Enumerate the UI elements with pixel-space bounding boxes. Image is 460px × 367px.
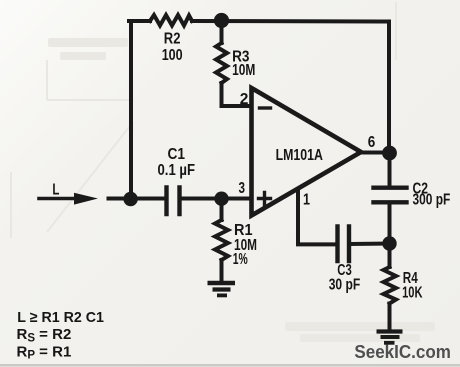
svg-text:R2: R2 xyxy=(164,31,181,48)
svg-text:1%: 1% xyxy=(233,251,248,268)
wire: C3 right plate to node C xyxy=(350,242,390,247)
wire: node to C1 left plate xyxy=(131,197,164,201)
node top (junction R2/R3/top wire) xyxy=(214,13,229,28)
svg-text:30 pF: 30 pF xyxy=(329,277,361,294)
ground (below R1) xyxy=(208,283,236,295)
wire: R4 bottom to ground xyxy=(388,304,392,331)
svg-text:10K: 10K xyxy=(402,284,423,301)
node C (junction C2/C3/R4) xyxy=(382,236,396,250)
wire: R1 bottom to ground xyxy=(220,260,224,281)
node input (junction left vertical / C1) xyxy=(123,192,137,206)
svg-text:SeekIC.com: SeekIC.com xyxy=(354,342,451,362)
wire: op-amp output to node 6 xyxy=(361,151,390,155)
wire: C1 right plate to node 3 xyxy=(181,197,222,201)
svg-text:6: 6 xyxy=(368,134,376,151)
wire: pin 1 down from op-amp bottom edge xyxy=(298,190,334,244)
op-amp U1 triangle LM101A xyxy=(252,88,362,216)
svg-text:L: L xyxy=(52,181,59,198)
wire: left vertical from top wire to input node xyxy=(129,21,133,199)
minus sign at pin 2 input xyxy=(260,106,271,109)
bottom scan edge line xyxy=(0,364,460,367)
capacitor C3 plates xyxy=(338,227,350,262)
svg-text:100: 100 xyxy=(162,47,183,64)
resistor R4 (vertical zigzag) xyxy=(384,267,397,304)
svg-text:10M: 10M xyxy=(232,62,255,79)
svg-text:1: 1 xyxy=(303,191,310,208)
wire: R2 right to top node and across to right corner xyxy=(192,19,389,24)
plus sign at pin 3 input xyxy=(259,193,271,205)
wire: arrow to input node xyxy=(109,197,132,201)
svg-text:RP = R1: RP = R1 xyxy=(17,343,72,361)
svg-text:300 pF: 300 pF xyxy=(413,191,451,208)
svg-text:L ≥ R1 R2 C1: L ≥ R1 R2 C1 xyxy=(17,309,104,326)
node 3 (junction C1/R1/pin3) xyxy=(214,192,228,206)
svg-text:2: 2 xyxy=(240,91,249,108)
resistor R2 (horizontal zigzag) xyxy=(150,15,192,26)
svg-text:RS = R2: RS = R2 xyxy=(17,326,72,344)
wire: top left segment to R2 xyxy=(129,19,150,23)
wire: node 6 down to C2 xyxy=(388,153,392,186)
svg-text:LM101A: LM101A xyxy=(276,147,323,164)
resistor R3 (vertical zigzag) xyxy=(216,43,227,83)
wire: node to op-amp pin 3 xyxy=(222,197,250,201)
wire: node C down to R4 xyxy=(388,244,392,267)
input arrow shaft xyxy=(39,197,78,201)
background ghost marks xyxy=(11,2,396,238)
svg-text:C1: C1 xyxy=(168,146,186,163)
wire: node to R3 top xyxy=(220,21,224,43)
node 6 (output junction) xyxy=(382,146,397,161)
resistor R1 (vertical zigzag) xyxy=(215,220,228,260)
wire: node 3 down to R1 xyxy=(220,199,224,220)
svg-text:3: 3 xyxy=(239,180,246,197)
capacitor C2 plates xyxy=(374,188,407,203)
capacitor C1 plates xyxy=(167,188,180,215)
wire: C2 bottom plate to node C xyxy=(388,204,392,244)
input arrowhead xyxy=(74,193,98,205)
wire: right vertical down to node 6 xyxy=(387,22,391,154)
wire: R3 bottom down and right to op-amp pin 2 xyxy=(222,83,250,106)
ground (below R4) xyxy=(377,332,403,343)
svg-text:0.1 µF: 0.1 µF xyxy=(158,162,196,179)
